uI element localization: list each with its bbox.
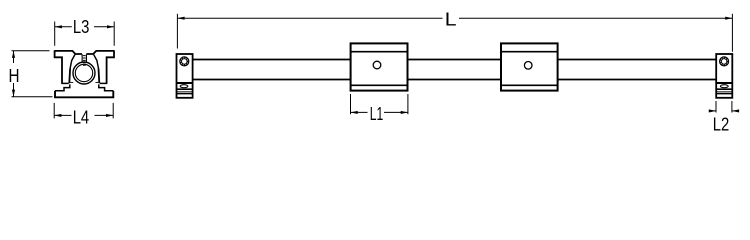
dimension L arrow right xyxy=(725,17,732,20)
dimension L1 line xyxy=(351,111,408,113)
dimension L4 arrow right xyxy=(106,114,113,117)
svg-text:L4: L4 xyxy=(73,108,90,128)
left ear outer edge and wing outer edge xyxy=(55,50,62,83)
svg-text:L3: L3 xyxy=(73,17,90,37)
dimension H extension lines xyxy=(12,51,53,97)
slide block 1 top line xyxy=(351,51,408,53)
dimension L2 extension lines xyxy=(716,101,732,113)
clamp slit edges xyxy=(82,54,86,61)
pedestal foot right xyxy=(99,84,114,90)
bore inner circle xyxy=(75,64,92,81)
right end support clamp slot oval xyxy=(720,85,728,88)
groove right (wing inner edge) xyxy=(94,55,99,69)
dimension H arrow down xyxy=(12,90,15,97)
svg-text:L2: L2 xyxy=(713,115,730,135)
dimension L2 tails xyxy=(709,110,739,112)
dimension L4 extension lines xyxy=(54,103,113,119)
bore outer circle xyxy=(73,62,95,84)
right end support block xyxy=(716,54,732,98)
right end support lines xyxy=(716,88,732,90)
dimension L4 arrow left xyxy=(54,114,61,117)
slide block 1 oil hole xyxy=(373,61,381,69)
left end support clamp slot oval xyxy=(180,85,188,88)
dimension L2 arrow right (pointing left) xyxy=(732,109,739,112)
dimension H arrow up xyxy=(12,51,15,58)
dimension L1 arrow right xyxy=(401,111,408,114)
dimension L extension lines xyxy=(177,14,732,52)
right end support divider xyxy=(716,82,732,84)
dimension L3 arrow right xyxy=(107,25,114,28)
slide block 1 bottom line xyxy=(351,84,408,86)
support top profile (ears, chamfers, bridge) xyxy=(55,51,114,54)
svg-text:H: H xyxy=(9,66,20,86)
shaft bottom line xyxy=(193,79,717,81)
shoulder right xyxy=(95,81,99,83)
right ear outer edge and wing outer edge xyxy=(107,50,114,83)
clamp jaw bottom right xyxy=(100,82,108,84)
dimension L line xyxy=(177,17,732,19)
dimension L4 line xyxy=(54,114,113,116)
pedestal foot left xyxy=(55,84,70,90)
svg-text:L1: L1 xyxy=(370,104,384,124)
groove left (wing inner edge) xyxy=(70,55,75,69)
slide block 1 xyxy=(351,43,408,90)
slide block 2 oil hole xyxy=(524,62,532,70)
left end support divider xyxy=(177,82,193,84)
dimension L3 arrow left xyxy=(55,25,62,28)
shoulder left xyxy=(69,81,73,83)
dimension L1 arrow left xyxy=(351,111,358,114)
dimension L3 line xyxy=(55,26,114,28)
left end support block xyxy=(177,54,193,98)
clamp screw thread dashes xyxy=(83,56,86,66)
slide block 2 bottom line xyxy=(501,84,558,86)
left end support screw circle xyxy=(180,57,189,66)
svg-text:L: L xyxy=(445,10,457,30)
dimension L1 extension lines xyxy=(351,94,408,114)
right end support screw circle xyxy=(720,57,729,66)
slide block 2 xyxy=(501,43,558,90)
base slab xyxy=(55,91,113,98)
dimension L2 arrow left (pointing right) xyxy=(709,109,716,112)
dimension L arrow left xyxy=(177,17,184,20)
shaft top line xyxy=(193,59,717,61)
clamp jaw bottom left xyxy=(61,82,69,84)
dimension H line xyxy=(13,51,15,97)
slide block 2 top line xyxy=(501,51,558,53)
dimension L3 extension lines xyxy=(55,22,114,46)
left end support lines xyxy=(177,88,193,90)
